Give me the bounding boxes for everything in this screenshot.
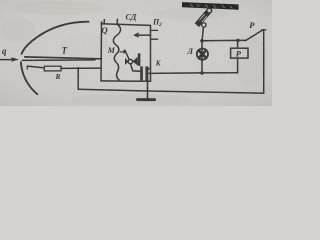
svg-text:Р: Р: [236, 49, 242, 59]
svg-text:М: М: [107, 46, 116, 55]
svg-text:Р: Р: [249, 20, 255, 30]
svg-text:q: q: [2, 46, 7, 56]
svg-text:2: 2: [158, 22, 162, 28]
svg-text:Л: Л: [187, 47, 194, 56]
svg-text:Т: Т: [62, 46, 68, 56]
svg-text:R: R: [55, 72, 61, 81]
svg-text:СД: СД: [126, 13, 137, 22]
svg-text:Q: Q: [102, 25, 108, 35]
